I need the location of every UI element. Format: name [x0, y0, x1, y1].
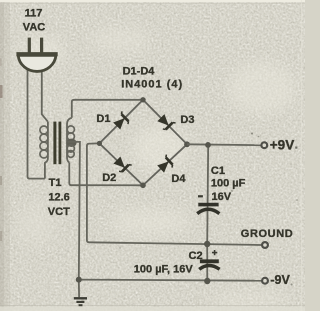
AC plug body: [18, 55, 56, 71]
diode D4: [156, 155, 175, 174]
svg-text:+9V: +9V: [270, 138, 294, 153]
capacitor C1 plate bottom (curved): [197, 209, 219, 213]
wire: +9V rail: [187, 143, 262, 146]
svg-text:D2: D2: [102, 172, 116, 184]
wire: C2 branch vertical: [206, 244, 208, 281]
bottom edge faint line: [0, 307, 305, 311]
node: center-tap / -9V rail junction: [76, 277, 82, 283]
diode bridge arms (wires): [99, 100, 187, 186]
wire: ground rail: [89, 242, 262, 245]
svg-text:GROUND: GROUND: [241, 228, 293, 240]
svg-text:VAC: VAC: [23, 21, 45, 33]
node: C1 top junction: [205, 142, 211, 148]
node: bridge top junction: [140, 97, 145, 102]
wire: bridge left node down to ground rail: [87, 143, 100, 242]
svg-text:-9V: -9V: [270, 273, 290, 287]
svg-text:VCT: VCT: [48, 206, 70, 218]
node: bridge right junction: [184, 141, 190, 147]
wire: -9V rail: [79, 280, 262, 281]
AC plug top bar: [16, 52, 57, 56]
transformer T1 core bar left: [53, 122, 56, 165]
transformer T1 primary winding: [45, 122, 48, 179]
ground symbol: [74, 298, 87, 305]
label C1 minus sign: [198, 195, 203, 197]
diode D2: [112, 155, 131, 174]
wire: secondary top lead to bridge top node: [72, 100, 143, 118]
transformer T1 secondary winding: [67, 118, 72, 163]
wire: plug right lead down to primary top: [42, 70, 48, 122]
svg-text:D1-D4: D1-D4: [123, 66, 156, 78]
svg-text:C1: C1: [211, 165, 225, 177]
diode D1: [112, 111, 131, 130]
terminal +9V: [261, 142, 267, 148]
AC plug prong right: [40, 38, 43, 53]
scan speckles: [29, 59, 298, 285]
terminal GROUND: [262, 242, 268, 248]
wire: secondary bottom lead to bridge bottom node: [69, 163, 143, 186]
left edge scan smudges: [0, 85, 3, 98]
svg-text:D3: D3: [180, 114, 194, 126]
node: bridge bottom junction: [140, 183, 146, 189]
node: bridge left junction: [97, 141, 102, 146]
svg-text:D4: D4: [171, 173, 186, 185]
svg-text:16V: 16V: [212, 191, 232, 203]
svg-text:C2: C2: [189, 250, 203, 262]
capacitor C2 plate top: [200, 259, 219, 263]
wire: C1 branch vertical: [207, 145, 208, 244]
node: -9V rail junction: [204, 278, 210, 284]
capacitor C1 plate top: [198, 203, 218, 207]
node: ground rail junction: [204, 241, 210, 247]
transformer T1 core bar right: [59, 122, 62, 165]
wire: center tap down to ground junction: [68, 142, 80, 297]
capacitor C2 plate bottom (curved): [199, 265, 219, 269]
svg-text:100 µF: 100 µF: [211, 178, 246, 190]
svg-text:12.6: 12.6: [48, 192, 69, 204]
svg-text:IN4001 (4): IN4001 (4): [121, 78, 183, 90]
svg-text:T1: T1: [49, 177, 62, 189]
label C2 plus sign: [212, 250, 217, 255]
terminal -9V: [262, 278, 268, 284]
svg-text:D1: D1: [96, 113, 110, 125]
svg-text:117: 117: [25, 7, 43, 19]
wire: plug left lead down and right to transformer primary bottom: [28, 70, 45, 179]
AC plug (117 VAC) prong left: [28, 38, 31, 53]
diode D3: [156, 113, 175, 132]
svg-text:100 µF, 16V: 100 µF, 16V: [134, 264, 194, 276]
top edge light strip: [0, 0, 305, 2]
